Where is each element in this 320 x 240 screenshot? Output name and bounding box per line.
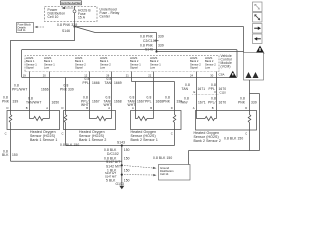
- wire long horizontal feed right: [75, 26, 244, 28]
- wire ground bus: [11, 160, 122, 162]
- svg-text:1666: 1666: [92, 81, 100, 85]
- svg-text:PPL/: PPL/: [208, 100, 216, 104]
- ground distribution box: [159, 165, 191, 181]
- wire rail2 PNK to B1S2 D: [65, 78, 67, 111]
- svg-text:Bank 1 Sensor 2: Bank 1 Sensor 2: [79, 138, 106, 142]
- svg-text:A: A: [132, 106, 134, 110]
- wire vertical through C100 to S146: [156, 33, 158, 52]
- wire pin22 to B2S1 B: [153, 72, 155, 111]
- svg-text:PPL: PPL: [145, 99, 152, 103]
- node column B1S2 low: [100, 56, 111, 70]
- label 0.8 TAN 1668: [104, 96, 122, 108]
- sensor box 1: [7, 111, 60, 143]
- svg-text:D: D: [171, 106, 173, 110]
- wire pin19 to B1S1 B: [29, 72, 31, 111]
- node column B1S2 signal: [75, 56, 86, 70]
- svg-text:1671: 1671: [198, 100, 206, 104]
- svg-text:PPL/WHT: PPL/WHT: [12, 87, 27, 91]
- VCM label: [221, 54, 232, 69]
- inline connector C110 dotted: [193, 90, 227, 95]
- svg-text:TAN/: TAN/: [180, 100, 188, 104]
- node column B1S1 signal: [26, 56, 37, 70]
- wire right rail down: [259, 94, 261, 151]
- icon zoom-in: [253, 13, 263, 23]
- svg-text:B: B: [26, 106, 28, 110]
- svg-text:Hot In Run And Start: Hot In Run And Start: [61, 2, 81, 5]
- wire S146 branch right: [157, 51, 244, 53]
- svg-text:TAN/WHT: TAN/WHT: [26, 100, 41, 104]
- ground G103: [116, 182, 125, 189]
- svg-text:Bank 2 Sensor 2: Bank 2 Sensor 2: [194, 139, 221, 143]
- svg-text:24: 24: [190, 73, 193, 77]
- svg-text:C3/A: C3/A: [219, 73, 225, 77]
- heater resistor B2S1: [136, 111, 154, 121]
- label 0.8 PPL 1670 upper: [209, 83, 227, 91]
- svg-text:Signal: Signal: [75, 66, 83, 70]
- label 0.8 PNK 339 / C100: [140, 34, 164, 51]
- label 0.8 PNK 339 left rail: [2, 96, 18, 104]
- node splice mid: [121, 164, 123, 166]
- svg-text:0.8 BLK 150: 0.8 BLK 150: [153, 156, 172, 160]
- node splice S147: [121, 144, 123, 146]
- pin 22: [148, 73, 151, 77]
- svg-text:A: A: [108, 106, 110, 110]
- svg-text:Signal: Signal: [190, 66, 198, 70]
- icon warning triangle: [256, 46, 265, 57]
- svg-text:D: D: [245, 106, 247, 110]
- label 0.8 PPL 1667: [81, 96, 100, 108]
- pin 30: [210, 73, 213, 77]
- node column B1S1 low: [44, 56, 55, 70]
- warning triangle at VCM corner: [229, 71, 237, 78]
- svg-text:A: A: [46, 106, 48, 110]
- label 0.8 PPL/WHT 1666: [12, 84, 49, 92]
- svg-text:B: B: [212, 106, 214, 110]
- arrow power distribution: [62, 7, 74, 9]
- svg-text:1667: 1667: [92, 99, 100, 103]
- wire PNK below callout: [249, 80, 251, 111]
- label box "Hot In Run And Start": [61, 1, 82, 5]
- svg-text:Bank 2 Sensor 1: Bank 2 Sensor 1: [131, 138, 158, 142]
- svg-text:150: 150: [12, 153, 18, 157]
- sensor element B1S1: [9, 111, 12, 162]
- svg-text:1670: 1670: [219, 87, 227, 91]
- svg-text:20: 20: [43, 73, 46, 77]
- svg-text:339: 339: [68, 87, 74, 91]
- pin 24: [190, 73, 193, 77]
- svg-text:C: C: [62, 132, 64, 136]
- icon zoom-out (top right): [253, 2, 263, 12]
- underhood fuse block (dashed box): [45, 7, 98, 22]
- wire pin21 to bus: [131, 72, 133, 82]
- svg-text:Low: Low: [100, 66, 105, 70]
- wire PNK drop to B2S1 D: [174, 82, 176, 111]
- svg-text:0.8 BLK 150: 0.8 BLK 150: [224, 136, 243, 140]
- VCM outer box: [22, 50, 238, 78]
- svg-text:A: A: [193, 106, 195, 110]
- svg-text:1669: 1669: [114, 81, 122, 85]
- fuse HO2S 15A: [73, 6, 91, 22]
- node column B2S1 low: [150, 56, 161, 70]
- svg-text:B: B: [86, 106, 88, 110]
- wire center ground down to G103: [121, 146, 123, 186]
- wire bus to B2S1: [132, 81, 175, 83]
- wire box2 ground down: [66, 145, 175, 147]
- svg-text:Low: Low: [44, 66, 49, 70]
- dashed arrow to ground box 1: [124, 166, 157, 170]
- svg-text:PNK: PNK: [163, 99, 171, 103]
- wire pin30 to B2S2 B: [216, 72, 218, 111]
- pin 21: [126, 73, 129, 77]
- svg-text:0.8 BLK 150: 0.8 BLK 150: [60, 143, 79, 147]
- wire horizontal to C100 drop: [95, 32, 157, 34]
- sensor element B2S2: [248, 111, 251, 151]
- pin 26: [106, 73, 109, 77]
- svg-text:E: E: [194, 90, 196, 94]
- svg-text:C: C: [5, 132, 7, 136]
- svg-text:Bank 1 Sensor 1: Bank 1 Sensor 1: [30, 138, 57, 142]
- svg-text:339: 339: [251, 100, 257, 104]
- label stack center: [104, 140, 130, 182]
- svg-text:Signal: Signal: [26, 66, 34, 70]
- warning callout box: [244, 53, 264, 81]
- label 0.8 BLK 150 box3: [153, 156, 172, 160]
- svg-text:(VCM): (VCM): [221, 65, 231, 69]
- svg-text:21: 21: [126, 73, 129, 77]
- svg-text:150: 150: [124, 148, 130, 152]
- svg-text:S147 A/T: S147 A/T: [105, 171, 116, 175]
- label 0.8 TAN under VCM: [105, 77, 122, 85]
- svg-text:339: 339: [158, 43, 164, 47]
- wire down to ground bus: [188, 151, 190, 165]
- text Underhood Fuse-Relay Center: [100, 8, 120, 19]
- wire jog right: [250, 93, 260, 95]
- svg-text:B: B: [150, 106, 152, 110]
- label 0.8 BLK 150 box2: [60, 143, 79, 147]
- svg-text:Cell 10: Cell 10: [48, 15, 59, 19]
- label 0.8 PNK 339 rail4: [238, 97, 257, 105]
- node S146 splice under fuse: [62, 25, 76, 33]
- svg-text:1650: 1650: [52, 100, 60, 104]
- node splice lower: [121, 174, 123, 176]
- label 0.8 TAN/WHT 1650: [26, 97, 59, 105]
- wire pin12 to B1S2 B: [89, 72, 91, 111]
- svg-text:Low: Low: [150, 66, 155, 70]
- svg-text:150: 150: [124, 168, 130, 172]
- svg-text:G103: G103: [116, 182, 125, 186]
- icon prev arrow: [253, 34, 263, 44]
- svg-text:1667: 1667: [137, 99, 145, 103]
- heater resistor B1S2: [90, 111, 112, 121]
- pin 12: [84, 73, 87, 77]
- wire pin20 to B1S1 A: [49, 72, 51, 111]
- svg-text:150: 150: [124, 178, 130, 182]
- wire bottom right horizontal: [189, 150, 260, 152]
- label 0.8 PNK 339 rail3: [163, 96, 182, 104]
- dashed reference arrow: [35, 26, 45, 28]
- node S146 splice: [155, 50, 157, 52]
- svg-text:Cell 11: Cell 11: [18, 28, 27, 32]
- node column B2S2 signal: [190, 56, 201, 70]
- svg-text:S146: S146: [62, 29, 70, 33]
- wire drop to B2S1 A: [135, 82, 137, 111]
- reference box Fuse Block Details Cell 11: [17, 23, 34, 33]
- heater resistor B1S1: [30, 111, 50, 121]
- wire branch left rail from splice: [11, 27, 75, 111]
- svg-text:PPL: PPL: [209, 87, 216, 91]
- svg-text:19: 19: [23, 73, 26, 77]
- svg-text:PPL/: PPL/: [83, 81, 91, 85]
- svg-text:1668: 1668: [114, 99, 122, 103]
- svg-text:30: 30: [210, 73, 213, 77]
- svg-text:Center: Center: [100, 15, 111, 19]
- svg-text:PNK: PNK: [238, 100, 246, 104]
- wire pin26 to B1S2 A: [111, 72, 113, 111]
- svg-text:D: D: [62, 106, 64, 110]
- svg-text:150: 150: [124, 156, 130, 160]
- wire right feed down: [243, 27, 245, 53]
- sensor element B2S1: [173, 111, 176, 146]
- svg-text:Low: Low: [205, 66, 210, 70]
- node column B2S2 low: [205, 56, 216, 70]
- svg-text:PNK: PNK: [2, 100, 10, 104]
- svg-text:15 A: 15 A: [78, 15, 86, 19]
- label 0.8 PPL 1668: [145, 96, 163, 104]
- svg-text:1671: 1671: [198, 87, 206, 91]
- wire diagonal from splice: [75, 27, 96, 33]
- VCM inner dashed box: [25, 56, 219, 72]
- sensor box 3: [131, 111, 182, 143]
- label 0.8 TAN 1671 lower: [180, 97, 206, 105]
- svg-text:1666: 1666: [41, 87, 49, 91]
- wire pin24 to B2S2 A: [196, 72, 198, 111]
- svg-text:D: D: [7, 106, 9, 110]
- label 0.8 TAN 1671 upper: [182, 83, 206, 91]
- wire fuse to splice: [74, 22, 76, 27]
- label 0.8 TAN 1667 B2S1: [128, 96, 145, 108]
- svg-text:Cell 14: Cell 14: [160, 172, 169, 176]
- pin 19: [23, 73, 26, 77]
- sensor box 4: [194, 111, 257, 144]
- svg-text:1670: 1670: [219, 100, 227, 104]
- svg-text:PNK: PNK: [60, 87, 68, 91]
- node column B2S1 signal: [130, 56, 141, 70]
- svg-text:22: 22: [148, 73, 151, 77]
- svg-text:339: 339: [158, 34, 164, 38]
- svg-text:0.8 PNK: 0.8 PNK: [140, 34, 154, 38]
- svg-text:C: C: [171, 132, 173, 136]
- svg-text:C: C: [245, 132, 247, 136]
- icon next arrow: [253, 24, 263, 34]
- label 0.8 PNK 339 rail2: [60, 84, 74, 92]
- sensor box 2: [64, 111, 116, 143]
- label 0.8 BLK 150 box1: [2, 149, 18, 157]
- svg-text:Signal: Signal: [130, 66, 138, 70]
- svg-text:BLK: BLK: [2, 153, 9, 157]
- svg-text:TAN: TAN: [182, 87, 189, 91]
- svg-text:339: 339: [13, 100, 19, 104]
- heater resistor B2S2: [197, 111, 217, 121]
- text Power Distribution Cell 10: [48, 8, 66, 19]
- label 0.8 PPL under VCM: [83, 77, 100, 85]
- dashed arrow to ground box 2: [124, 174, 157, 176]
- svg-text:TAN/: TAN/: [105, 81, 113, 85]
- svg-text:S143: S143: [117, 140, 125, 144]
- pin 20: [43, 73, 46, 77]
- sensor element B1S2: [64, 111, 67, 146]
- label 0.8 PPL 1670 lower: [208, 97, 226, 105]
